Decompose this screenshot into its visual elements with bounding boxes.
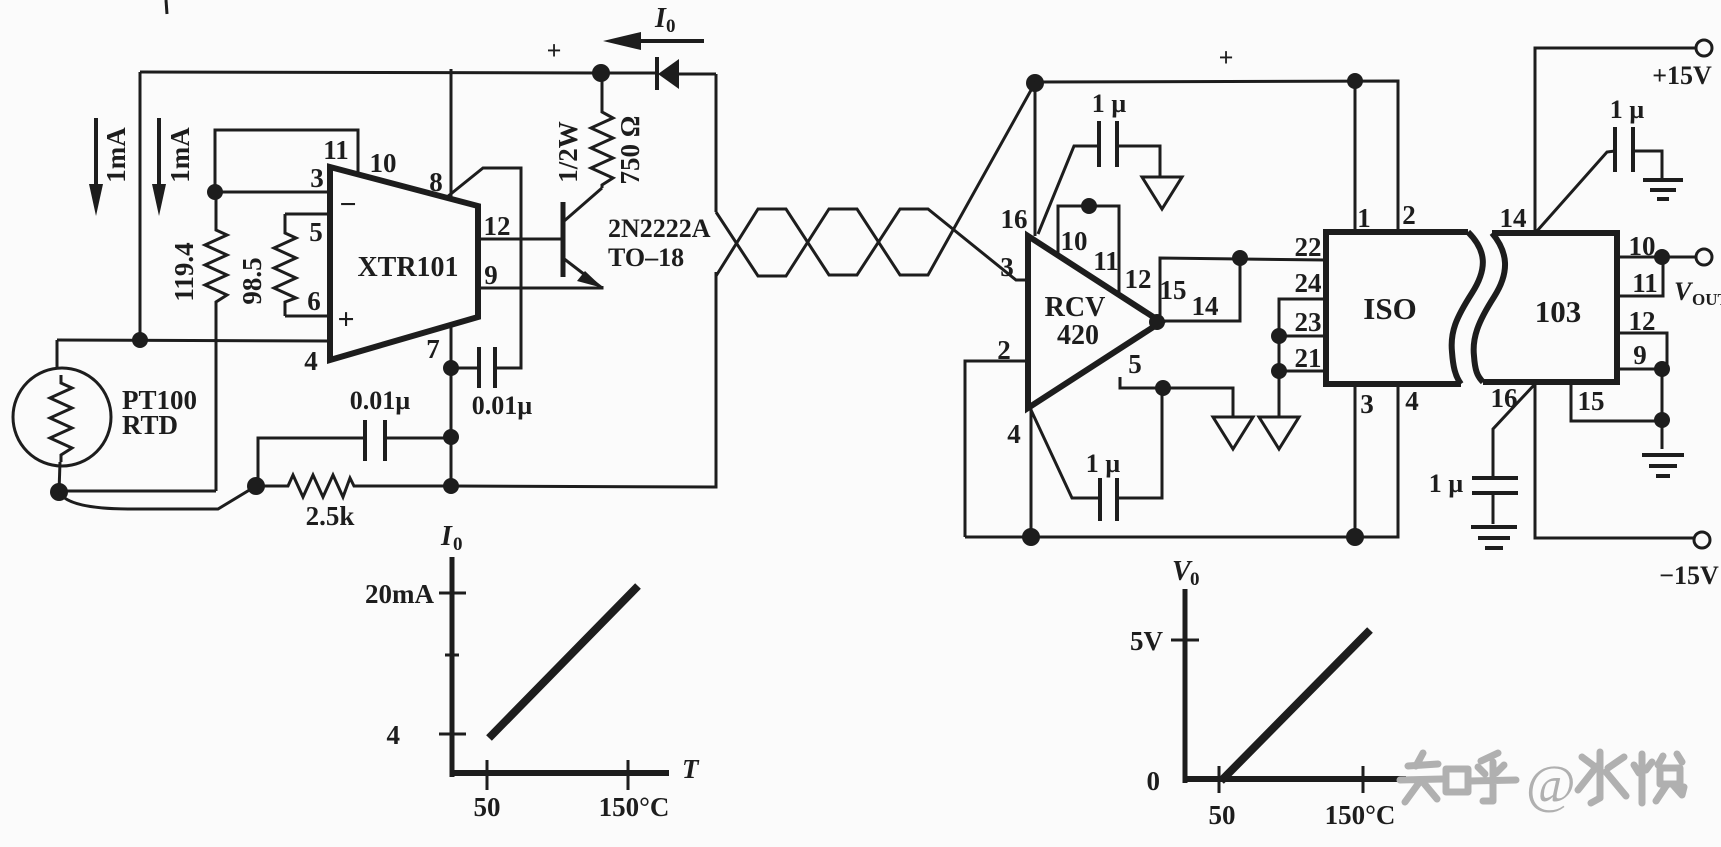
svg-text:103: 103 [1535, 294, 1582, 329]
svg-text:T: T [682, 754, 700, 784]
diode D1 [601, 57, 716, 90]
wire pin10 to top rail [450, 69, 453, 199]
svg-text:50: 50 [1209, 800, 1236, 830]
terminal -15V [1694, 532, 1710, 548]
svg-text:5V: 5V [1130, 626, 1164, 656]
wire left drop from top rail [139, 72, 142, 340]
svg-text:+15V: +15V [1652, 61, 1712, 90]
svg-text:750 Ω: 750 Ω [615, 116, 645, 185]
wire pin4 drop [1030, 408, 1033, 537]
node 2.5k right [443, 478, 459, 494]
wire pin15 to ISO22 [1160, 258, 1326, 322]
watermark zhihu [1400, 753, 1516, 802]
svg-text:3: 3 [310, 163, 324, 193]
wire pin5 stub [285, 213, 330, 216]
wire ISO pin1 [1354, 81, 1357, 232]
svg-text:14: 14 [1500, 203, 1527, 233]
svg-text:−: − [339, 188, 356, 221]
svg-text:11: 11 [323, 135, 349, 165]
wire pin15 box 103 [1571, 382, 1662, 421]
svg-text:I: I [440, 521, 453, 552]
wire pin5 [1120, 377, 1233, 417]
transistor Q1 2N2222A [478, 188, 603, 288]
svg-text:3: 3 [1360, 389, 1374, 419]
wire top rail left [140, 72, 601, 73]
svg-text:1 µ: 1 µ [1429, 469, 1464, 498]
node pin10 103 [1654, 249, 1670, 265]
node top rail RCV [1026, 74, 1044, 92]
op-amp RCV420 [1028, 236, 1161, 408]
terminal VOUT [1696, 249, 1712, 265]
wire pin23 stub [1279, 335, 1326, 338]
svg-text:16: 16 [1001, 204, 1028, 234]
RTD zigzag [50, 375, 72, 462]
svg-text:−15V: −15V [1659, 561, 1719, 590]
current arrow 1mA #2 [152, 118, 166, 216]
svg-text:RCV: RCV [1045, 292, 1106, 323]
wire ISO pins 24 23 21 [1279, 299, 1326, 417]
svg-text:+: + [1219, 43, 1234, 72]
svg-text:+: + [337, 303, 354, 336]
node pin15 103 [1654, 412, 1670, 428]
node bottom rail ISO3 [1346, 528, 1364, 546]
ground arrow top RCV [1142, 177, 1182, 209]
svg-text:150°C: 150°C [1325, 800, 1396, 830]
resistor 119.4 [205, 192, 227, 491]
svg-text:0: 0 [666, 16, 676, 37]
wire RTD to 119.4 bottom [59, 490, 216, 493]
svg-text:150°C: 150°C [599, 792, 670, 822]
node pin23 [1271, 328, 1287, 344]
svg-text:1mA: 1mA [101, 127, 131, 183]
node pin21 [1271, 363, 1287, 379]
wire ISO pin3 [1354, 384, 1357, 537]
svg-text:1: 1 [1357, 203, 1371, 233]
svg-text:7: 7 [426, 334, 440, 364]
node RTD bottom [50, 483, 68, 501]
graph1 tick 50 [486, 760, 489, 790]
graph1 label I0 [440, 521, 463, 555]
node pin14 [1232, 250, 1248, 266]
wire pin2 [965, 361, 1028, 537]
resistor 98.5 [274, 214, 296, 316]
svg-text:1 µ: 1 µ [1086, 449, 1121, 478]
svg-text:10: 10 [1061, 226, 1088, 256]
svg-text:5: 5 [309, 217, 323, 247]
wire pin12 103 [1617, 333, 1667, 369]
svg-text:15: 15 [1160, 275, 1187, 305]
svg-text:6: 6 [307, 286, 321, 316]
svg-text:12: 12 [484, 211, 511, 241]
wire pin4 [57, 340, 330, 341]
graph2 tick 150 [1362, 766, 1365, 793]
graph1 tick 150 [627, 760, 630, 790]
wire RTD bottom lead [59, 462, 60, 492]
svg-text:24: 24 [1295, 268, 1322, 298]
terminal +15V [1696, 40, 1712, 56]
label I0 top [654, 3, 676, 37]
wire pin21 stub [1279, 370, 1326, 373]
wire pin14 loop [1161, 258, 1240, 321]
svg-text:420: 420 [1057, 320, 1099, 351]
node top rail diode junction [592, 64, 610, 82]
amplifier 103 block [1474, 233, 1617, 382]
svg-text:4: 4 [304, 346, 318, 376]
wire RTD top lead [56, 340, 59, 369]
node pin9 103 [1654, 361, 1670, 377]
svg-text:1 µ: 1 µ [1610, 95, 1645, 124]
node 2.5k left [247, 477, 265, 495]
svg-text:10: 10 [370, 148, 397, 178]
svg-text:50: 50 [474, 792, 501, 822]
isolation amp ISO block [1326, 232, 1483, 384]
svg-text:2N2222A: 2N2222A [608, 214, 711, 243]
graph1 curve [489, 586, 638, 738]
label VOUT [1674, 277, 1721, 309]
node pins10-11 loop [1081, 198, 1097, 214]
graph2 tick 5V [1171, 639, 1199, 642]
twisted pair strand A [716, 83, 1035, 276]
svg-text:0.01µ: 0.01µ [350, 386, 411, 415]
wire pin10 103 to VOUT [1617, 256, 1696, 259]
svg-text:11: 11 [1093, 246, 1119, 276]
op-amp XTR101 body [330, 167, 478, 360]
resistor 2.5k [256, 475, 451, 497]
svg-text:5: 5 [1128, 349, 1142, 379]
capacitor 1u top 103 [1537, 127, 1662, 231]
svg-text:XTR101: XTR101 [357, 252, 458, 283]
ground bottom 103 [1471, 527, 1517, 548]
capacitor 1u bottom 103 [1472, 384, 1535, 524]
stray scan tick top [166, 0, 167, 14]
svg-text:0.01µ: 0.01µ [472, 391, 533, 420]
graph1 axes [450, 557, 669, 777]
ground top 103 [1643, 180, 1683, 199]
capacitor 1u top RCV [1038, 121, 1160, 234]
wire pin16 drop [1034, 83, 1037, 236]
wire bottom long to twisted pair [451, 272, 716, 487]
current arrow 1mA #1 [89, 118, 103, 216]
graph2 axes [1183, 589, 1406, 783]
resistor 750ohm [591, 73, 613, 188]
svg-text:119.4: 119.4 [169, 242, 199, 301]
watermark shui [1578, 752, 1684, 803]
svg-text:8: 8 [429, 167, 443, 197]
svg-text:15: 15 [1578, 386, 1605, 416]
wire pin9 103 [1617, 369, 1662, 449]
wire bottom rail [965, 384, 1398, 537]
svg-text:21: 21 [1295, 343, 1322, 373]
svg-text:1mA: 1mA [165, 127, 195, 183]
svg-text:22: 22 [1295, 232, 1322, 262]
wire pin6 stub [285, 315, 330, 318]
wire top rail right [1035, 81, 1398, 232]
graph2 label V0 [1172, 556, 1200, 590]
svg-text:4: 4 [1405, 386, 1419, 416]
graph1 tick mid [445, 654, 459, 657]
graph1 tick 20mA [439, 592, 466, 595]
node cap left right end [443, 429, 459, 445]
svg-text:0: 0 [453, 534, 463, 555]
svg-text:V: V [1674, 277, 1694, 306]
node pin4 junction [132, 332, 148, 348]
svg-text:3: 3 [1000, 252, 1014, 282]
wire pin16 to -15V [1535, 382, 1694, 538]
graph2 tick 50 [1218, 766, 1221, 793]
twisted pair strand B [716, 209, 1028, 280]
svg-text:1/2W: 1/2W [553, 121, 583, 183]
svg-text:9: 9 [1633, 340, 1647, 370]
ground arrow ISO [1259, 417, 1299, 449]
svg-text:0: 0 [1147, 766, 1161, 796]
node ISO pin1 top [1347, 73, 1363, 89]
capacitor 0.01u left [258, 420, 451, 486]
svg-text:+: + [547, 36, 562, 65]
svg-text:9: 9 [484, 260, 498, 290]
node pin7 [443, 360, 459, 376]
wire pin9 [478, 286, 602, 288]
svg-text:2: 2 [1402, 200, 1416, 230]
svg-text:ISO: ISO [1363, 291, 1416, 326]
svg-text:11: 11 [1632, 268, 1658, 298]
svg-text:OUT: OUT [1692, 290, 1721, 309]
svg-text:98.5: 98.5 [237, 257, 267, 304]
RTD PT100 circle [13, 368, 111, 466]
ground pin9 103 [1642, 455, 1684, 476]
node pin3 junction [207, 184, 223, 200]
node bottom rail pin4 [1022, 528, 1040, 546]
svg-text:RTD: RTD [122, 410, 178, 440]
svg-text:4: 4 [387, 720, 401, 750]
svg-text:@: @ [1526, 754, 1576, 814]
svg-text:TO–18: TO–18 [608, 243, 684, 272]
svg-text:1 µ: 1 µ [1092, 89, 1127, 118]
svg-text:14: 14 [1192, 291, 1219, 321]
svg-text:23: 23 [1295, 307, 1322, 337]
wire right drop to twisted pair [715, 74, 718, 212]
svg-text:12: 12 [1125, 264, 1152, 294]
svg-text:2.5k: 2.5k [306, 501, 355, 531]
graph2 curve [1221, 630, 1370, 781]
wire pins10-11 loop [1058, 206, 1119, 295]
wire pin11 103 [1617, 257, 1663, 296]
wire pin7 vertical [450, 327, 453, 486]
wire pin11 loop [215, 130, 358, 192]
svg-text:0: 0 [1190, 569, 1200, 590]
graph1 tick 4 [439, 733, 466, 736]
svg-text:4: 4 [1007, 419, 1021, 449]
wire RTD return curve [59, 486, 256, 509]
node pin5 cap [1155, 380, 1171, 396]
node RCV output [1149, 314, 1165, 330]
arrow I0 top [603, 32, 704, 50]
wire pin3 [215, 191, 330, 194]
svg-text:20mA: 20mA [365, 579, 434, 609]
ground arrow pin5 [1213, 417, 1253, 449]
capacitor 1u bottom RCV [1031, 388, 1162, 521]
wire +15V [1535, 48, 1696, 233]
capacitor 0.01u right (pins7-8) [447, 168, 521, 388]
